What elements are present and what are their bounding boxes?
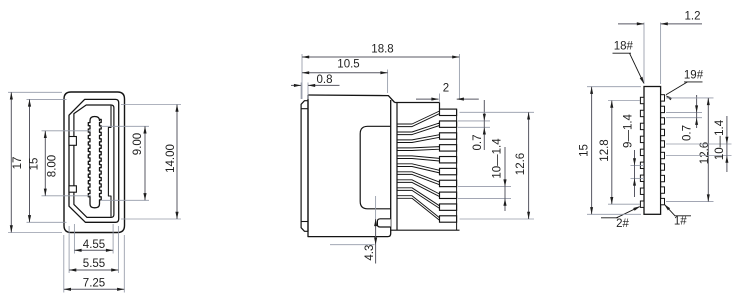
svg-text:4.55: 4.55: [83, 239, 105, 251]
dim 1.2: [618, 23, 644, 25]
dim 18.8 extension lines: [301, 54, 303, 99]
right-row contact bump 5: [661, 141, 665, 147]
dim 12.6 right extension lines: [666, 97, 714, 99]
dim 5.55: [69, 269, 118, 271]
flange divider top: [301, 108, 308, 110]
dim 0.8 extension lines: [300, 83, 302, 100]
dim 0.7: [483, 100, 485, 150]
middle view: latch box: [377, 219, 390, 227]
svg-text:0.8: 0.8: [317, 74, 333, 86]
dim 15: [29, 99, 31, 222]
svg-text:15: 15: [578, 144, 590, 157]
svg-text:10—1.4: 10—1.4: [491, 138, 503, 179]
dim 5.55 extension lines: [68, 226, 70, 273]
dim 8.00 extension lines: [42, 130, 92, 132]
dim 4.55: [74, 249, 113, 251]
dim 17 extension lines: [8, 91, 62, 93]
right-row contact bump 3: [661, 118, 665, 124]
svg-text:15: 15: [29, 158, 41, 171]
middle view: shell body outline: [308, 95, 395, 103]
right-row contact bump 1: [661, 95, 665, 101]
left-row contact bump 8: [640, 188, 644, 194]
dim 12.6 extension lines: [460, 111, 535, 113]
dim 9.00 extension lines: [101, 125, 149, 127]
pin 3 solder pad: [440, 133, 457, 139]
pads right bus line: [456, 109, 458, 230]
pin 5 solder pad: [440, 157, 457, 163]
svg-text:9—1.4: 9—1.4: [622, 113, 634, 147]
svg-text:10.5: 10.5: [337, 58, 359, 70]
dim 17: [10, 92, 12, 232]
left view: connector front face outer shell: [64, 92, 125, 233]
pin 3 lead: [397, 135, 440, 143]
svg-text:5.55: 5.55: [83, 258, 105, 270]
dim 12.6: [528, 112, 530, 219]
pin 1 lead: [397, 111, 440, 127]
pin 4 lead: [397, 147, 440, 151]
middle view: insulator top ledge: [395, 102, 440, 104]
pin 9 solder pad: [440, 204, 457, 210]
flange divider bottom: [301, 221, 308, 223]
left-row contact bump 5: [640, 149, 644, 155]
right-row contact bump 8: [661, 175, 665, 181]
left view: contact tongue with contact bumps: [88, 117, 101, 208]
left-row contact bump 3: [640, 123, 644, 129]
svg-text:18#: 18#: [614, 41, 634, 53]
svg-text:10—1.4: 10—1.4: [714, 119, 726, 160]
svg-text:14.00: 14.00: [165, 144, 177, 173]
dim 4.3 extension line: [375, 196, 377, 219]
dim 14.00 extension lines: [121, 104, 181, 106]
left-row contact bump 7: [640, 175, 644, 181]
dim 14.00: [176, 105, 178, 220]
left-row contact bump 2: [640, 110, 644, 116]
middle view: insulator right edge: [396, 103, 398, 231]
dim 15 extension lines: [587, 86, 641, 88]
dim 9-1.4 extension lines: [631, 165, 645, 167]
middle view: cavity depth contour: [360, 126, 391, 209]
left view: D-shell outer contour: [69, 99, 119, 222]
pin 2 solder pad: [440, 121, 457, 127]
svg-text:18.8: 18.8: [371, 43, 393, 55]
dim 10.5: [302, 72, 388, 74]
svg-text:0.7: 0.7: [682, 125, 694, 141]
dim 15 extension lines: [27, 98, 67, 100]
dim 10-1.4 right extension lines: [666, 143, 732, 145]
dim 12.8 extension lines: [608, 100, 640, 102]
pin 5 lead: [397, 156, 440, 161]
svg-text:2: 2: [443, 83, 449, 95]
dim 0.7 right: [696, 95, 698, 128]
left-row contact bump 4: [640, 136, 644, 142]
svg-text:1#: 1#: [674, 215, 687, 227]
dim 0.8: [291, 84, 301, 86]
dim 12.8: [611, 101, 613, 205]
dim 10-1.4 extension lines: [458, 186, 511, 188]
right-row contact bump 10: [661, 198, 665, 204]
pin 7 solder pad: [440, 180, 457, 186]
svg-text:9.00: 9.00: [132, 133, 144, 155]
svg-text:8.00: 8.00: [46, 155, 58, 177]
svg-text:4.3: 4.3: [364, 245, 376, 261]
dim 2: [416, 98, 439, 100]
pin 1 solder pad: [440, 109, 457, 115]
pin 6 solder pad: [440, 168, 457, 174]
dim 4.3: [375, 219, 377, 264]
left-row contact 18#: [640, 97, 644, 103]
left-row contact bump 6: [640, 162, 644, 168]
dim 0.7 extension lines: [458, 120, 490, 122]
dim 10-1.4 right: [726, 116, 728, 172]
right-row contact bump 4: [661, 129, 665, 135]
pin 8 solder pad: [440, 192, 457, 198]
dim 8.00: [44, 131, 46, 196]
svg-text:12.8: 12.8: [599, 139, 611, 161]
pin 2 lead: [397, 123, 440, 135]
dim 2 extension line: [439, 94, 441, 102]
dim 9-1.4: [634, 150, 636, 197]
middle view: rear flange plate: [301, 101, 308, 232]
dim 10.5 extension line: [387, 70, 389, 94]
pin 10 solder pad: [440, 216, 457, 222]
dim 15: [591, 87, 593, 215]
pin 7 lead: [397, 172, 440, 185]
dim 10-1.4: [504, 147, 506, 211]
middle view: insulator bottom ledge: [391, 229, 460, 231]
dim 12.6 right: [707, 98, 709, 202]
dim 7.25 extension lines: [63, 235, 65, 293]
left view: right wall step contour: [108, 106, 111, 217]
pin 6 lead: [397, 164, 440, 173]
dim 7.25: [64, 288, 125, 290]
left view: shell notch upper: [69, 137, 76, 146]
svg-text:19#: 19#: [684, 70, 704, 82]
right view: contact tongue strip edge-on: [644, 87, 661, 215]
svg-text:17: 17: [12, 157, 24, 170]
right-row contact bump 9: [661, 187, 665, 193]
pin 4 solder pad: [440, 145, 457, 151]
dim 4.55 extension lines: [73, 224, 75, 254]
right-row contact bump 2: [661, 106, 665, 112]
svg-text:2#: 2#: [616, 218, 629, 230]
svg-text:0.7: 0.7: [472, 135, 484, 151]
dim 0.7 right extension lines: [666, 112, 702, 114]
left view: D-shell inner contour: [74, 105, 114, 217]
pin 9 lead: [397, 188, 440, 209]
left view: shell notch lower: [69, 186, 76, 192]
dim 1.2 extension lines: [643, 23, 645, 85]
right-row contact bump 6: [661, 152, 665, 158]
dim 18.8: [302, 56, 459, 58]
dim 9.00: [144, 126, 146, 200]
left-row contact bump 9: [640, 201, 644, 207]
right-row contact bump 7: [661, 164, 665, 170]
svg-text:12.6: 12.6: [699, 142, 711, 164]
ledge drop to pad 1: [439, 103, 441, 110]
pin 10 lead: [397, 196, 440, 221]
pin 8 lead: [397, 180, 440, 197]
svg-text:1.2: 1.2: [685, 11, 701, 23]
svg-text:12.6: 12.6: [515, 153, 527, 175]
svg-text:7.25: 7.25: [83, 277, 105, 289]
